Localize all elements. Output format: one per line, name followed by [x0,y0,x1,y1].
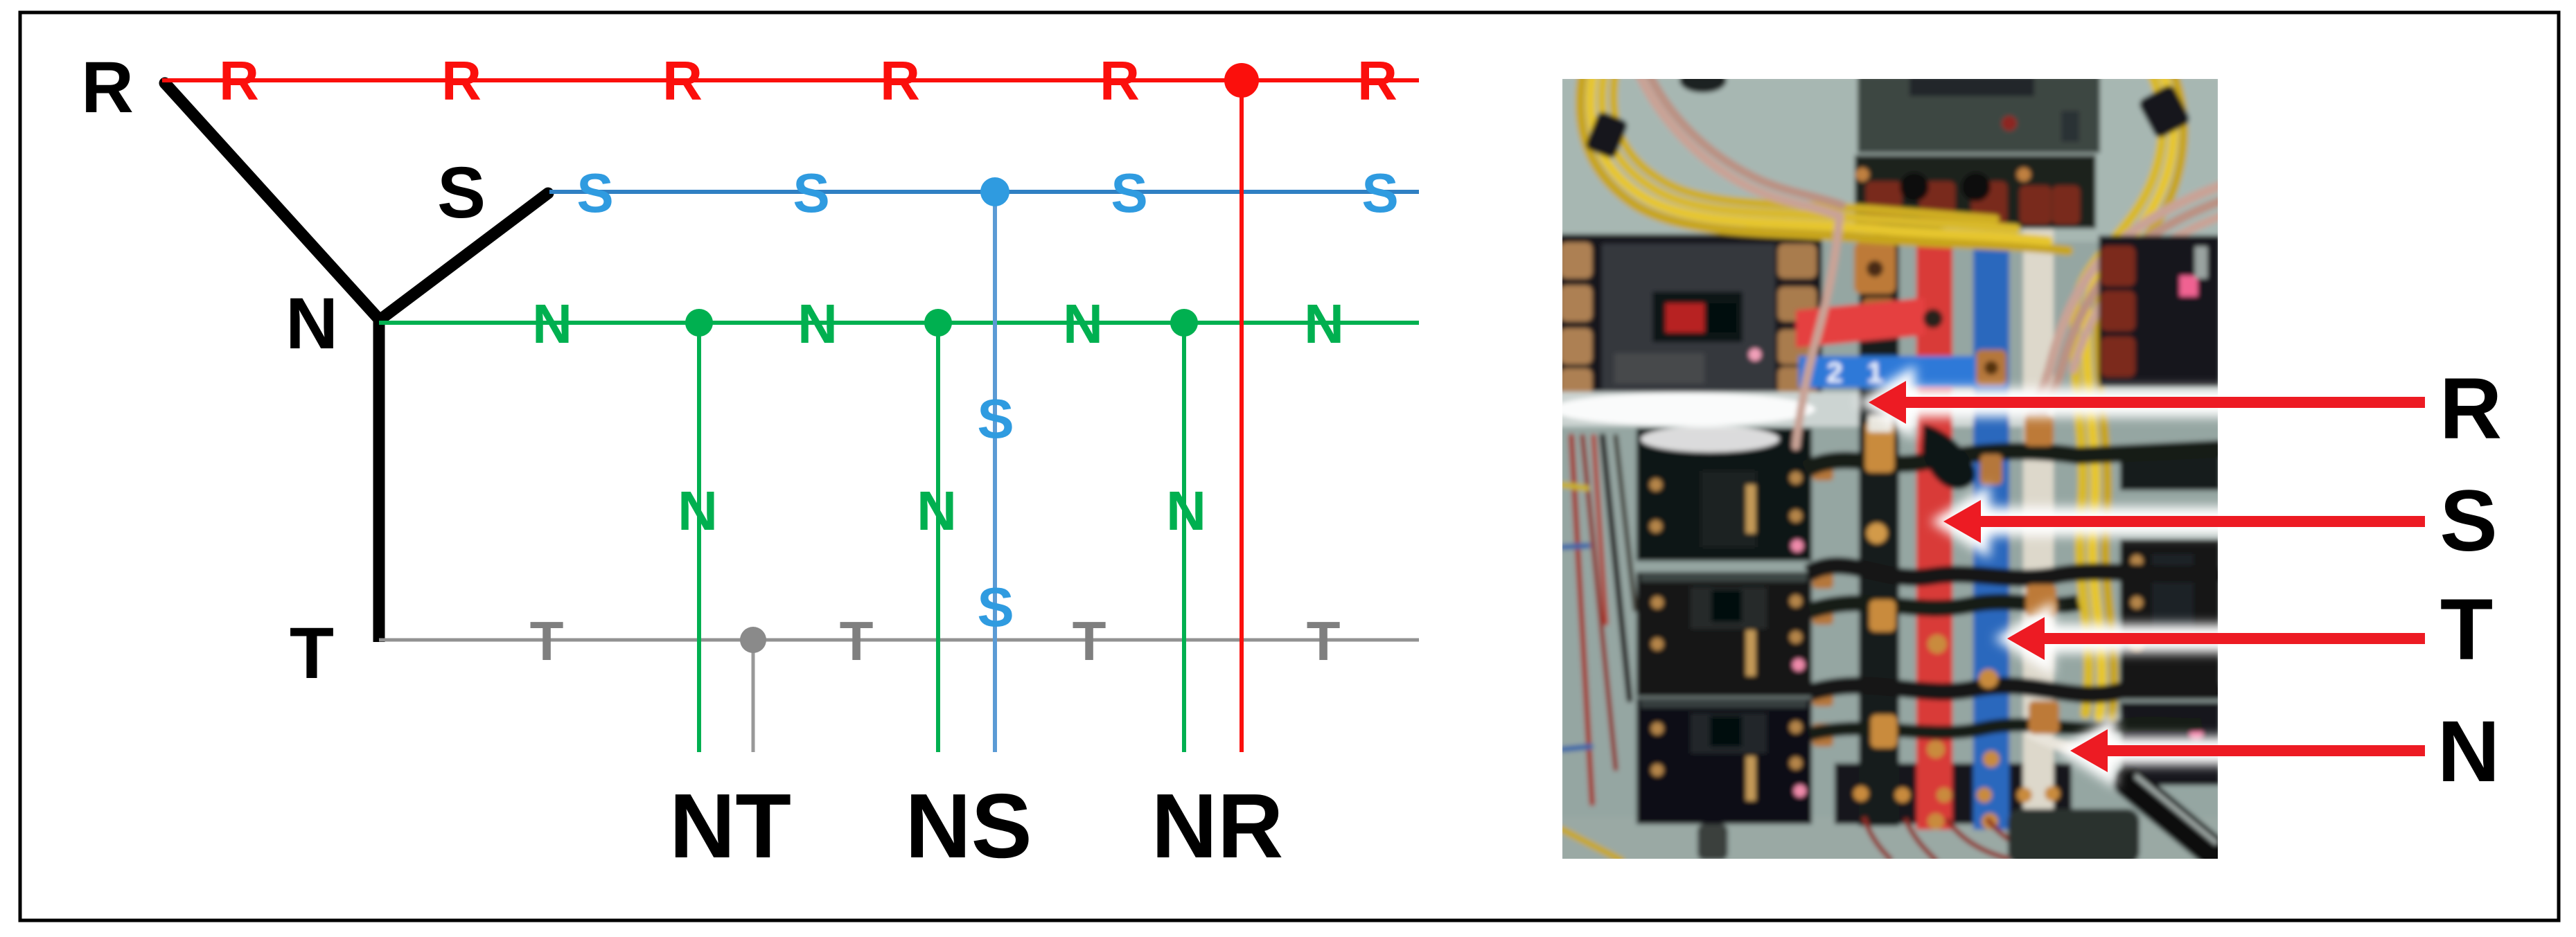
svg-text:R: R [1100,50,1140,111]
photo: top unit body [1858,75,2100,153]
wire: S bus (blue) [549,190,1419,194]
label: T bus letters (gray) [530,610,1341,672]
node: junction on R bus [1224,63,1259,98]
photo: yellow cable left loop [1580,75,2068,251]
photo: bottom terminal row [1835,763,2072,824]
photo: copper bracket bolt [1867,260,1883,277]
photo: breaker B details [1651,587,1805,676]
photo: bottom right blob [2008,809,2140,864]
photo: left thin wire bundle [1562,436,1635,860]
photo: lower background shade [1559,817,2221,866]
svg-text:NT: NT [669,775,791,877]
photo: black connector on red bar [1922,424,1975,489]
wire: S dropper (blue) [993,192,997,752]
photo: right breaker 2 details [2131,554,2205,650]
wire: T dropper (gray) [752,640,755,752]
svg-text:T: T [290,613,334,694]
photo: right breaker 3 [2120,702,2221,785]
wire: T bus (gray) [379,639,1419,642]
svg-text:S: S [977,388,1014,449]
svg-text:T: T [530,610,564,672]
photo: top unit dark band [1909,75,2034,96]
photo: terminal row hole 2 [1961,172,1991,202]
photo: left breaker label strip [1614,353,1704,384]
photo: black feeder wire 2 [1808,566,2221,578]
svg-text:R: R [2440,361,2502,457]
svg-text:R: R [1357,50,1397,111]
svg-text:N: N [1304,293,1344,355]
wire: R dropper (red) [1240,80,1244,752]
photo: breaker B [1637,572,1812,697]
photo: right breaker 3 pink [2190,728,2203,740]
photo: copper bracket on black bar [1854,242,1896,294]
photo: tan cable left [1639,75,1842,446]
photo: tan cable right [2030,186,2221,416]
photo: right top breaker pink dot [2180,276,2198,296]
photo: red strap horizontal [1796,298,1925,348]
photo: breaker A [1637,428,1812,561]
svg-text:N: N [532,293,572,355]
svg-text:R: R [662,50,703,111]
wire: black lead from R bus to star point [165,83,380,320]
label: R bus letters (red) [219,50,1397,111]
svg-text:2: 2 [1826,356,1842,389]
svg-text:S: S [793,162,829,224]
photo: right breaker 2 [2120,539,2221,699]
photo: yellow vertical bundle [2074,309,2114,717]
photo: left big breaker body [1559,234,1822,400]
wire: R bus (red) [162,78,1419,82]
photo: terminal row copper screw 2 [2017,168,2031,181]
photo: copper screws on red bar [1927,634,1947,830]
photo: left breaker terminals left [1560,242,1592,399]
photo: bottom thin wires [1864,817,2083,862]
node: junction 2 on N bus [924,309,952,337]
photo: black bus bar vertical [1859,234,1899,826]
photo: terminal row copper screws [1855,168,1869,181]
wire: N bus (green) [379,321,1419,325]
photo: silver mounting band [1559,392,2052,427]
photo: bottom right cable [2128,781,2221,859]
photo: copper lug bolt [1984,361,1998,375]
photo: yellow right tape [2137,83,2192,139]
photo: black feeder wire 3 [1810,602,2079,611]
svg-text:S: S [2440,473,2497,569]
svg-text:R: R [219,50,259,111]
photo: right top breaker [2099,235,2221,388]
svg-text:N: N [2437,704,2500,800]
label: S bus letters (blue) [576,162,1398,638]
svg-text:S: S [977,576,1014,638]
photo: top edge dark bump [1679,68,1727,93]
svg-text:T: T [2440,582,2493,678]
photo: left breaker toggle frame [1652,292,1743,342]
photo: breaker A glare [1641,426,1779,452]
photo: blue bus bar vertical [1973,237,2009,830]
svg-text:T: T [840,610,874,672]
photo: copper clips on black bar [1865,421,1897,748]
photo: yellow loop tape [1585,110,1629,159]
svg-text:N: N [797,293,838,355]
svg-text:N: N [1166,480,1206,542]
photo: wire start lugs [1812,457,1833,747]
photo: copper bracket 2 [1862,298,1894,332]
svg-text:T: T [1073,610,1106,672]
photo: black feeder wire 4 [1810,686,2221,695]
svg-text:1: 1 [1867,356,1882,389]
photo: white neutral wire [2029,731,2108,750]
photo: left breaker switch slot [1709,303,1736,332]
callout arrow S [1930,484,2426,559]
node: junction on S bus [980,177,1009,206]
svg-text:R: R [880,50,920,111]
photo: top unit emblem [2061,111,2079,142]
photo: red strap bolt [1923,309,1943,328]
wire: N dropper 2 (green) [936,323,940,752]
photo: left breaker inner panel [1602,244,1775,392]
wire: black stem from star point to T bus [373,317,385,642]
photo: bottom right cable glint [2135,776,2217,844]
photo: breaker A details [1650,471,1803,552]
wire: N dropper 3 (green) [1182,323,1186,752]
svg-text:NR: NR [1152,775,1284,877]
callout arrow T [1994,601,2426,676]
photo: left breaker pink dot [1749,348,1761,361]
photo: breaker C details [1651,713,1806,801]
photo: bottom terminal screws [1853,786,2060,803]
node: junction 1 on N bus [685,309,713,337]
callout arrow N [2057,713,2426,788]
photo: left breaker terminals right [1778,244,1817,396]
photo: terminal block row [1855,155,2096,229]
photo: upper background lighter [1559,75,2221,242]
label: N bus letters (green) [532,293,1344,542]
photo: white bus bar vertical [2023,229,2054,826]
photo: distribution panel [1552,68,2221,866]
photo: silver band glare [1552,393,1815,426]
photo: right top breaker slot [2195,247,2207,278]
photo: copper lug on blue strap [1976,350,2006,386]
callout arrow R [1855,365,2426,440]
photo: blue strap horizontal [1799,356,2006,388]
svg-text:S: S [1361,162,1398,224]
node: junction on T bus [740,627,766,653]
photo: panel background [1559,75,2221,862]
photo: yellow cable right loop [2074,75,2184,313]
svg-text:NS: NS [905,775,1032,877]
svg-text:N: N [678,480,718,542]
svg-text:R: R [81,47,134,128]
photo: terminal row lug cluster [1866,181,2080,224]
svg-text:S: S [1111,162,1147,224]
photo: top unit red pilot [2002,116,2017,131]
wire: black lead from S bus to star point [380,193,548,320]
photo: terminal row holes [1900,172,1929,202]
svg-text:N: N [1063,293,1103,355]
photo: right mid breaker [2120,449,2221,490]
photo: black feeder wire 5 [1810,724,2202,734]
svg-text:N: N [917,480,957,542]
svg-text:S: S [576,162,613,224]
photo: breaker C [1637,698,1812,824]
photo: left breaker red switch [1666,303,1704,332]
wire: N dropper 1 (green) [697,323,701,752]
svg-text:R: R [441,50,482,111]
photo: breaker bottom cable [1697,824,1728,860]
photo: copper lug on blue bar top [1980,454,2002,485]
photo: copper lugs on white bar [2024,414,2059,734]
photo: right top breaker terminals [2101,246,2135,377]
node: junction 3 on N bus [1170,309,1198,337]
photo: black feeder wire 1 [1806,449,2221,470]
svg-text:N: N [285,283,338,364]
photo: copper screws on blue bar [1979,669,2000,830]
svg-text:S: S [437,152,486,233]
photo: red bus bar vertical [1916,235,1952,830]
svg-text:T: T [1307,610,1341,672]
